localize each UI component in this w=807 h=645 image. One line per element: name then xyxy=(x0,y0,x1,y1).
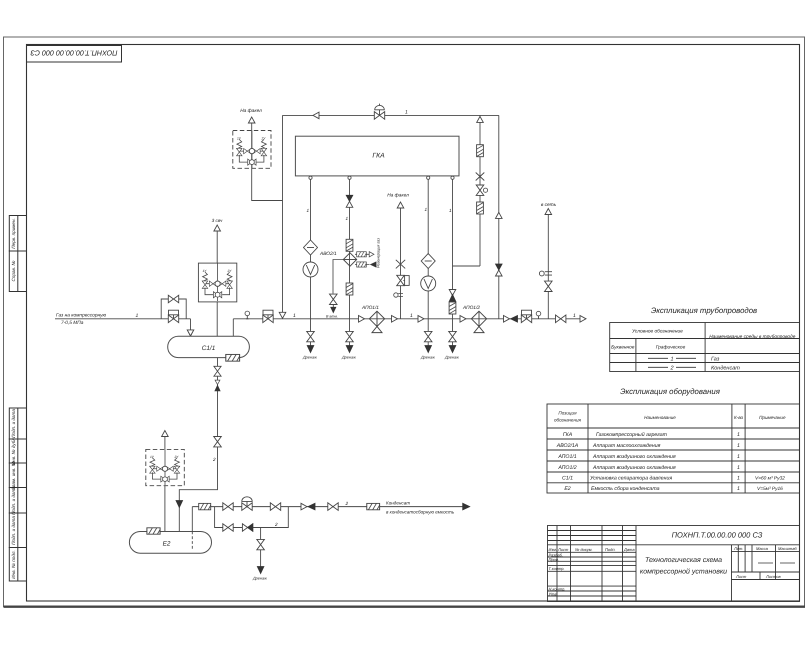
wire: E2 condensate outlet xyxy=(191,507,193,532)
bypass valve 2 xyxy=(242,524,252,532)
svg-text:1: 1 xyxy=(737,486,740,492)
bypass valve xyxy=(168,295,178,303)
pipeline row 1: gas xyxy=(648,357,696,359)
spool on line 2 xyxy=(367,503,380,509)
svg-text:№ докум.: № докум. xyxy=(575,547,593,552)
svg-text:Газ на компрессорную: Газ на компрессорную xyxy=(56,313,107,319)
dip tube dashed xyxy=(191,532,193,551)
valve xyxy=(270,503,280,511)
safety valve station box on E2 (dashed) xyxy=(146,449,185,485)
arrow into separator xyxy=(188,330,194,336)
svg-text:Справ. №: Справ. № xyxy=(11,261,16,282)
svg-text:ГКА: ГКА xyxy=(372,153,385,160)
valve with sensor on vent drop xyxy=(476,185,487,195)
nozzle spool on E2 top xyxy=(147,528,160,534)
svg-text:К-во: К-во xyxy=(734,415,744,420)
title block xyxy=(548,526,800,602)
svg-text:7-0,5 МПа: 7-0,5 МПа xyxy=(61,320,84,326)
inlet bypass loop xyxy=(161,299,186,319)
svg-text:1: 1 xyxy=(737,432,740,438)
svg-text:1: 1 xyxy=(449,208,452,213)
drain valve 1 below line xyxy=(307,319,315,353)
reducer arrows on line 2 xyxy=(301,503,315,510)
svg-text:компрессорной установки: компрессорной установки xyxy=(640,568,727,576)
svg-text:2: 2 xyxy=(274,522,278,527)
title block small labels xyxy=(549,546,798,597)
spool on outlet 2 xyxy=(346,239,353,251)
svg-text:Газокомпрессорный агрегат: Газокомпрессорный агрегат xyxy=(596,432,668,438)
top-left stamp box xyxy=(27,46,122,63)
svg-text:1: 1 xyxy=(670,357,673,363)
wire: recycle top line xyxy=(283,114,499,116)
orifice with tap on net riser xyxy=(539,271,552,276)
flare arrow mid xyxy=(397,202,404,208)
svg-text:Инв. № дубл.: Инв. № дубл. xyxy=(11,437,16,465)
flow arrow after APO1/1 xyxy=(392,316,398,323)
drain from bypass xyxy=(260,528,262,540)
flow arrow before APO1/1 xyxy=(359,316,365,323)
drain valve 4 below line xyxy=(424,319,432,353)
wire: right discharge drop xyxy=(498,115,500,318)
svg-text:АВО2/1: АВО2/1 xyxy=(319,251,337,257)
to net arrow xyxy=(545,209,552,215)
closed blind X xyxy=(476,173,485,181)
flare arrow up xyxy=(248,117,255,123)
margin box: inv no dubl xyxy=(9,439,26,463)
svg-text:в сеть: в сеть xyxy=(541,203,557,208)
wire: main gas line xyxy=(55,318,586,320)
separator psv vent arrow xyxy=(214,225,221,231)
outlet valve with actuator box xyxy=(521,310,531,322)
E2 psv vent arrow xyxy=(162,431,169,437)
svg-text:Дренаж: Дренаж xyxy=(302,356,317,360)
control valve with actuator on top line xyxy=(374,104,384,120)
svg-text:Дата: Дата xyxy=(623,547,635,552)
reducer arrows after junction xyxy=(504,316,518,323)
check valve on outlet 3 xyxy=(449,290,456,302)
flow arrow before junction xyxy=(418,316,424,323)
svg-text:Е2: Е2 xyxy=(163,541,171,548)
svg-text:1: 1 xyxy=(307,208,310,213)
compressor unit GKA xyxy=(295,136,459,176)
svg-text:Перв. примен.: Перв. примен. xyxy=(11,218,16,249)
svg-text:Графическое: Графическое xyxy=(656,345,686,351)
svg-text:Позиция: Позиция xyxy=(558,411,577,416)
final valve xyxy=(556,315,566,323)
svg-text:3 свч: 3 свч xyxy=(212,218,223,223)
bypass of control valve xyxy=(215,507,289,528)
pump on outlet 4 xyxy=(421,276,436,291)
valve on net riser xyxy=(545,281,553,291)
outlet valve with actuator xyxy=(263,310,273,322)
arrow up on discharge drop xyxy=(496,212,503,218)
svg-text:Аппарат воздушного охлаждения: Аппарат воздушного охлаждения xyxy=(592,454,676,460)
wire: flare line xyxy=(400,208,402,319)
svg-text:Наименование: Наименование xyxy=(644,415,676,420)
wire: E2 psv riser xyxy=(164,437,166,532)
svg-text:2: 2 xyxy=(669,366,673,372)
svg-text:Подп. и дата: Подп. и дата xyxy=(11,516,16,545)
wire: flare psv link xyxy=(252,168,283,200)
svg-text:Условное обозначение: Условное обозначение xyxy=(632,329,683,335)
svg-text:АПО1/1: АПО1/1 xyxy=(361,305,379,311)
drain valve 2 below line xyxy=(346,319,354,353)
wire: separator psv riser xyxy=(216,231,218,336)
svg-text:ПОХНП.Т.00.00.00 000 СЗ: ПОХНП.Т.00.00.00 000 СЗ xyxy=(672,531,763,540)
svg-text:Аппарат маслоохлаждения: Аппарат маслоохлаждения xyxy=(592,443,661,449)
thick bottom sheet edge xyxy=(4,606,806,608)
margin box: vzam inv xyxy=(9,463,26,488)
pipeline row 2: condensate xyxy=(648,366,696,368)
svg-text:Экспликация трубопроводов: Экспликация трубопроводов xyxy=(651,306,757,315)
svg-text:V=60 м³ Ру32: V=60 м³ Ру32 xyxy=(755,476,785,482)
svg-text:ПОХНП.Т.00.00.00 000 СЗ: ПОХНП.Т.00.00.00 000 СЗ xyxy=(30,49,118,58)
pressure instrument on outlet xyxy=(245,311,250,319)
valve with actuator box on flare line xyxy=(397,275,410,285)
svg-text:1: 1 xyxy=(405,110,408,116)
svg-text:Дренаж: Дренаж xyxy=(252,577,267,581)
svg-text:С1/1: С1/1 xyxy=(202,345,216,352)
flow arrow before APO1/2 xyxy=(460,316,466,323)
arrow into E2 xyxy=(176,501,183,508)
check valve on discharge drop xyxy=(496,264,503,276)
margin box: podp i data 2 xyxy=(9,488,26,514)
wire: separator drain xyxy=(179,358,217,532)
svg-text:Дренаж: Дренаж xyxy=(341,356,356,360)
wire: flare psv riser xyxy=(251,123,253,131)
arrow up on vent drop xyxy=(477,116,484,122)
drain valves under separator xyxy=(214,366,221,376)
svg-text:АПО1/2: АПО1/2 xyxy=(462,305,480,311)
saddle spool on vessel xyxy=(226,354,240,361)
vent branch from cooler xyxy=(333,260,343,294)
svg-text:Установка сепаратора давления: Установка сепаратора давления xyxy=(590,476,672,482)
svg-text:Подп. и дата: Подп. и дата xyxy=(11,409,16,438)
margin box: sprav no xyxy=(9,251,26,292)
wire: GKA outlet 2 cooler xyxy=(349,176,351,319)
margin box: podp i data xyxy=(9,408,26,439)
svg-text:Конденсат: Конденсат xyxy=(711,366,740,372)
margin box: perv primen xyxy=(9,216,26,252)
valve on line 2 xyxy=(328,503,338,511)
closed blind X on flare line xyxy=(396,260,405,269)
svg-text:Аппарат воздушного охлаждения: Аппарат воздушного охлаждения xyxy=(592,465,676,471)
svg-text:1: 1 xyxy=(293,313,296,319)
wire: condensate line 2 xyxy=(192,506,463,508)
arrow left on top line xyxy=(313,112,319,119)
node: GKA flange stubs xyxy=(309,176,454,179)
spool on vent drop xyxy=(477,145,484,157)
spool 2 on vent drop xyxy=(477,202,484,214)
svg-text:1: 1 xyxy=(136,313,139,319)
end arrow line 2 xyxy=(463,503,470,510)
svg-text:Инв. № подл.: Инв. № подл. xyxy=(11,550,16,579)
spool on line 2 xyxy=(199,503,211,509)
svg-text:Масса: Масса xyxy=(756,546,769,551)
svg-text:Дренаж: Дренаж xyxy=(444,356,459,360)
margin box: inv no podl xyxy=(9,548,26,582)
pump on outlet 1 xyxy=(303,262,318,277)
svg-text:Подп. и дата: Подп. и дата xyxy=(11,486,16,515)
svg-text:Лист: Лист xyxy=(735,574,747,579)
filter on outlet 1 xyxy=(304,240,318,255)
wire: separator outlet riser xyxy=(232,319,234,337)
svg-text:Листов: Листов xyxy=(765,574,781,579)
svg-text:Газ: Газ xyxy=(711,357,720,363)
wire: drop into separator xyxy=(190,319,192,331)
valve xyxy=(223,503,233,511)
svg-text:в конденсатосборную емкость: в конденсатосборную емкость xyxy=(386,510,455,515)
svg-text:Масштаб: Масштаб xyxy=(778,546,797,551)
svg-text:Т.контр.: Т.контр. xyxy=(549,566,565,571)
svg-text:Конденсат: Конденсат xyxy=(386,501,410,506)
svg-text:ГКА: ГКА xyxy=(563,432,573,438)
separator vessel C1/1 xyxy=(168,336,250,357)
margin box: extra cell xyxy=(9,513,26,548)
svg-text:1: 1 xyxy=(410,313,413,319)
svg-text:1: 1 xyxy=(573,313,576,319)
svg-text:1: 1 xyxy=(737,476,740,482)
svg-text:Наименование среды в трубопров: Наименование среды в трубопроводе xyxy=(709,334,795,340)
svg-text:1: 1 xyxy=(737,454,740,460)
svg-text:1: 1 xyxy=(425,207,428,212)
svg-text:Емкость сбора конденсата: Емкость сбора конденсата xyxy=(591,486,660,492)
control valve with dome xyxy=(242,497,252,511)
svg-text:С1/1: С1/1 xyxy=(562,476,573,482)
svg-text:V=5м³ Ру16: V=5м³ Ру16 xyxy=(757,486,783,492)
inlet shutoff valve with actuator xyxy=(168,310,178,322)
svg-text:Технологическая схема: Технологическая схема xyxy=(645,557,722,564)
svg-text:Изм.: Изм. xyxy=(549,547,558,552)
svg-text:Е2: Е2 xyxy=(564,486,570,492)
sampling orifice on flare line xyxy=(394,293,403,297)
junction arrow from recycle drop xyxy=(279,312,286,318)
svg-text:На факел: На факел xyxy=(240,108,262,114)
wire: vent drop line xyxy=(453,115,481,266)
svg-text:Регенерация газ: Регенерация газ xyxy=(377,238,381,268)
margin rotated texts xyxy=(11,218,16,579)
svg-text:Буквенное: Буквенное xyxy=(611,345,635,351)
svg-text:1: 1 xyxy=(737,465,740,471)
wire: left recycle drop xyxy=(282,115,284,318)
check valve on outlet 2 xyxy=(346,195,353,207)
drain check valve xyxy=(215,380,220,385)
svg-text:Подп.: Подп. xyxy=(605,547,616,552)
wire: GKA outlet 1 with pump xyxy=(310,176,312,319)
condensate vessel E2 xyxy=(129,532,211,554)
svg-text:В атм.: В атм. xyxy=(326,315,338,319)
valve on drain line xyxy=(214,437,222,447)
wire: to net riser xyxy=(547,215,549,319)
filter on outlet 4 xyxy=(421,254,435,269)
instrument on outlet line xyxy=(536,311,541,318)
safety valve station box (flare, dashed) xyxy=(233,131,271,169)
svg-text:Пров.: Пров. xyxy=(549,557,560,562)
wire: GKA outlet 3 xyxy=(452,176,454,319)
svg-text:АПО1/2: АПО1/2 xyxy=(557,465,576,471)
svg-text:На факел: На факел xyxy=(387,193,409,199)
svg-text:Взам. инв. №: Взам. инв. № xyxy=(11,461,16,489)
svg-text:2: 2 xyxy=(345,501,349,506)
end flow arrow xyxy=(580,316,586,323)
svg-text:Лист: Лист xyxy=(557,547,569,552)
svg-text:1: 1 xyxy=(737,443,740,449)
bypass valve 1 xyxy=(223,524,233,532)
svg-text:Дренаж: Дренаж xyxy=(420,356,435,360)
svg-text:обозначения: обозначения xyxy=(554,418,582,423)
spool on outlet 3 xyxy=(449,302,456,314)
svg-text:Утв.: Утв. xyxy=(549,591,558,596)
safety valve station box on separator (solid) xyxy=(198,263,236,302)
svg-text:Примечание: Примечание xyxy=(759,415,786,420)
svg-text:АВО2/1А: АВО2/1А xyxy=(556,443,579,449)
drain valve 3 below line xyxy=(449,319,457,353)
svg-text:1: 1 xyxy=(346,216,349,221)
svg-text:Экспликация оборудования: Экспликация оборудования xyxy=(620,387,721,396)
regeneration taps xyxy=(355,254,370,264)
svg-text:АПО1/1: АПО1/1 xyxy=(557,454,576,460)
wire: GKA outlet 4 with pump xyxy=(427,176,429,319)
svg-text:Лит.: Лит. xyxy=(733,546,743,551)
spool below cooler xyxy=(346,283,353,295)
svg-text:2: 2 xyxy=(212,457,216,462)
